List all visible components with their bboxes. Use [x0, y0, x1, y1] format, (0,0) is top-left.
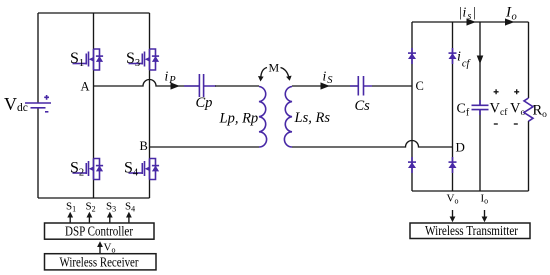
- resistor Ro: [524, 98, 533, 121]
- wire: inverter left rail lower (from battery): [37, 108, 39, 198]
- wire: inverter leg 2 (S3/S4): [149, 13, 151, 198]
- wire: rectifier leg 1: [411, 22, 413, 191]
- svg-text:A: A: [81, 80, 90, 94]
- wire: load branch upper: [528, 22, 530, 98]
- svg-text:i: i: [463, 5, 467, 20]
- box DSP Controller: [45, 223, 155, 239]
- arrow S3 from DSP: [109, 217, 111, 223]
- arrow Io to transmitter: [484, 210, 486, 217]
- battery plus sign: [44, 95, 49, 100]
- inductor Lp primary coil: [259, 87, 267, 148]
- svg-text:B: B: [140, 139, 148, 153]
- capacitor Cf: [479, 100, 481, 115]
- svg-text:Wireless Receiver: Wireless Receiver: [60, 256, 139, 271]
- svg-text:M: M: [269, 61, 280, 75]
- wire: Cp to primary coil: [215, 85, 259, 87]
- wire: load branch lower: [528, 121, 530, 191]
- wire: rectifier leg 2: [452, 22, 454, 191]
- svg-text:Lp, Rp: Lp, Rp: [219, 111, 259, 127]
- capacitor Cp: [184, 85, 216, 87]
- transistor S3: [129, 49, 160, 70]
- battery minus sign: [45, 111, 48, 113]
- wire: Cs to node C: [372, 85, 412, 87]
- wire: node B to primary coil bottom: [150, 146, 260, 148]
- transistor S2: [73, 159, 104, 180]
- plus sign Vo: [514, 89, 519, 94]
- wire: node A to Cp with hop over leg2: [94, 80, 200, 86]
- arrow S4 from DSP: [128, 217, 130, 223]
- inductor Ls secondary coil: [284, 87, 292, 148]
- battery Vdc plates: [25, 102, 51, 104]
- arrow S2 from DSP: [88, 217, 90, 223]
- svg-text:DSP Controller: DSP Controller: [65, 225, 133, 240]
- transistor S4: [129, 159, 160, 180]
- svg-text:|: |: [473, 5, 476, 20]
- svg-text:|: |: [459, 5, 462, 20]
- wire: Cf branch lower: [479, 110, 481, 191]
- wire: inverter left rail upper (to battery): [37, 13, 39, 103]
- wire: Cf branch upper: [479, 22, 481, 105]
- box Wireless Receiver: [45, 254, 157, 270]
- diode D3 bottom left: [408, 157, 416, 173]
- minus sign Vo: [514, 123, 518, 125]
- diode D1 top left: [408, 48, 416, 64]
- M arrow right: [281, 68, 289, 77]
- svg-text:Cs: Cs: [355, 98, 371, 114]
- svg-text:Ls, Rs: Ls, Rs: [294, 110, 331, 126]
- arrow Vo from receiver to DSP: [99, 247, 101, 254]
- arrow Vo to transmitter: [452, 210, 454, 217]
- capacitor Cs: [350, 85, 372, 87]
- wire: secondary coil bottom to node D with hop over rectifier leg1: [292, 141, 453, 148]
- svg-text:Wireless Transmitter: Wireless Transmitter: [425, 224, 518, 239]
- arrow icf: [477, 56, 484, 65]
- svg-text:Cp: Cp: [196, 95, 213, 111]
- arrow Io on top rail: [505, 18, 514, 25]
- wire: rectifier bottom rail: [412, 190, 529, 192]
- minus sign Vcf: [494, 123, 498, 125]
- box Wireless Transmitter: [410, 223, 530, 239]
- arrow S1 from DSP: [69, 217, 71, 223]
- svg-text:C: C: [416, 79, 424, 93]
- wire: rectifier top rail: [412, 21, 529, 23]
- diode D4 bottom right: [449, 157, 457, 173]
- svg-text:D: D: [456, 140, 465, 155]
- arrow iS: [321, 82, 330, 89]
- wire: inverter top rail: [38, 12, 150, 14]
- arrow |is| on top rail: [467, 18, 476, 25]
- wire: secondary coil top to Cs: [292, 85, 358, 87]
- svg-text:s: s: [468, 11, 472, 22]
- arrow iP: [171, 82, 180, 89]
- M arrow left: [261, 68, 267, 78]
- plus sign Vcf: [494, 89, 499, 94]
- diode D2 top right: [449, 48, 457, 64]
- wire: inverter leg 1 (S1/S2): [93, 13, 95, 198]
- wire: inverter bottom rail: [38, 197, 150, 199]
- transistor S1: [73, 49, 104, 70]
